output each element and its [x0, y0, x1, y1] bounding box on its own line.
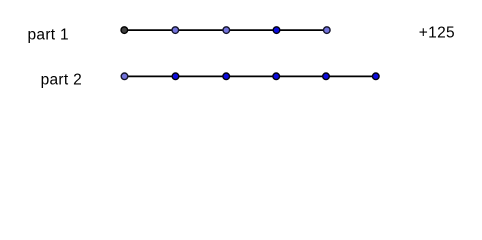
node E1 (light blue endpoint, part 1): [324, 27, 331, 34]
node B2 (dark blue, part 2): [172, 73, 179, 80]
node C2 (dark blue, part 2): [223, 73, 230, 80]
wire line 1: [124, 29, 326, 31]
node F2 (dark blue endpoint, part 2): [373, 73, 380, 80]
node B1 (light blue, part 1): [172, 27, 179, 34]
node C1 (light blue, part 1): [223, 27, 230, 34]
wire line 2: [125, 75, 376, 77]
node D1 (dark blue, part 1): [273, 27, 280, 34]
svg-text:part 1: part 1: [28, 26, 69, 43]
node E2 (dark blue, part 2): [323, 73, 330, 80]
svg-text:+125: +125: [419, 24, 455, 41]
node A1 (gray endpoint, part 1): [121, 27, 128, 34]
node D2 (dark blue, part 2): [273, 73, 280, 80]
svg-text:part 2: part 2: [41, 71, 82, 88]
node A2 (light blue endpoint, part 2): [121, 73, 128, 80]
